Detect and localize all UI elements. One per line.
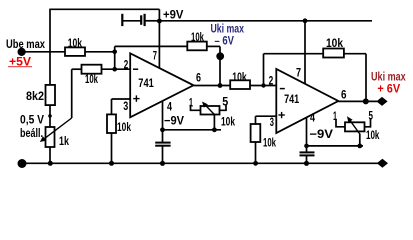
- red underline: [8, 66, 32, 68]
- op-amp U2: [269, 65, 347, 133]
- test point dot -6V: [216, 52, 224, 60]
- svg-text:10k: 10k: [221, 115, 235, 129]
- svg-text:−9V: −9V: [309, 127, 333, 141]
- wire R2 left lead: [72, 68, 82, 70]
- junction dot U1 output: [218, 83, 223, 88]
- junction dot wiper P3: [357, 144, 362, 149]
- junction dot rail R3: [109, 161, 114, 166]
- svg-text:4: 4: [310, 111, 315, 125]
- wire -9V run of U2: [307, 145, 364, 147]
- junction dot node pin2 lower: [112, 67, 117, 72]
- svg-text:6: 6: [341, 87, 347, 101]
- svg-text:741: 741: [284, 92, 299, 106]
- wire top-left horizontal: [50, 8, 159, 10]
- svg-text:– 6V: – 6V: [215, 34, 235, 48]
- svg-text:3: 3: [123, 99, 128, 113]
- junction dot U2 output feedback: [363, 98, 369, 104]
- wire feedback drop to U2 output: [365, 54, 367, 102]
- wire -9V run of U1: [163, 129, 222, 131]
- output terminal diamond top: [376, 97, 387, 106]
- resistor R1 10k: [65, 36, 85, 56]
- wire ground rail: [22, 162, 382, 164]
- svg-text:8k2: 8k2: [26, 89, 44, 103]
- wire feedback drop to output node: [219, 46, 221, 85]
- potentiometer P1 1k: [40, 118, 72, 148]
- pot P2 pin1 lead: [191, 105, 201, 111]
- U1 minus sign: [133, 68, 138, 70]
- capacitor C1 left lead: [122, 20, 141, 22]
- pot P3 pin5 lead: [365, 118, 371, 127]
- output terminal diamond bottom: [377, 159, 388, 168]
- capacitor C1 plates: [122, 14, 144, 26]
- wire feedback right run: [207, 45, 220, 47]
- svg-text:5: 5: [222, 95, 228, 109]
- U2 plus sign: [278, 114, 284, 116]
- junction dot +9V right: [303, 18, 308, 23]
- junction dot rail C3: [304, 161, 309, 166]
- resistor R3 10k: [107, 114, 131, 134]
- svg-text:4: 4: [167, 100, 172, 114]
- svg-text:2: 2: [124, 58, 129, 72]
- wire vertical +9V corner down to pin 7 of U1: [158, 9, 160, 68]
- svg-text:10k: 10k: [263, 136, 276, 150]
- svg-text:7: 7: [153, 49, 157, 63]
- capacitor C3 top lead: [306, 146, 308, 152]
- ground terminal dot: [18, 159, 27, 168]
- junction dot -9V U2: [304, 144, 309, 149]
- resistor R4 10k feedback U1: [187, 30, 207, 50]
- svg-text:5: 5: [369, 109, 374, 123]
- svg-text:3: 3: [270, 115, 274, 129]
- wire pin 3 down to R3: [111, 99, 113, 114]
- resistor R7 10k: [251, 124, 277, 150]
- pot P2 wiper tail: [213, 114, 215, 130]
- svg-text:−9V: −9V: [164, 114, 184, 128]
- wire pot P1 bottom to rail: [49, 147, 51, 163]
- wire pot wiper riser: [71, 69, 73, 118]
- wire R6 right lead: [344, 53, 366, 55]
- capacitor C2 top lead: [162, 130, 164, 142]
- junction dot wiper P2: [212, 127, 217, 132]
- svg-text:10k: 10k: [191, 30, 204, 44]
- wire pin 4 of U1 down: [162, 101, 164, 130]
- capacitor C3 bottom lead: [306, 156, 308, 164]
- junction dot rail R7: [253, 161, 258, 166]
- wire U2 feedback top run: [264, 53, 324, 55]
- svg-text:10k: 10k: [117, 120, 131, 134]
- svg-text:6: 6: [196, 71, 201, 85]
- wire +9V rail: [159, 20, 372, 22]
- wire pin 3 of U2 horizontal: [256, 115, 277, 117]
- wire R2 right lead into pin 2: [102, 68, 131, 70]
- capacitor C1 right lead: [145, 20, 159, 22]
- wire pin 7 of U2: [304, 21, 306, 84]
- svg-text:2: 2: [269, 74, 274, 88]
- wire pin 4 of U2 down: [306, 117, 308, 145]
- pot P3 pin1 lead: [336, 119, 345, 127]
- wire 8k2 to pot P1: [49, 105, 51, 127]
- svg-text:1k: 1k: [59, 134, 69, 148]
- wire R1 to node pin2: [85, 51, 115, 53]
- svg-text:10k: 10k: [85, 72, 98, 86]
- resistor R8k2: [26, 85, 55, 105]
- wire node vertical to pin 2: [114, 52, 116, 69]
- junction dot rail pot P1: [48, 161, 53, 166]
- input terminal dot: [18, 48, 26, 56]
- pot P3 wiper tail: [359, 134, 361, 146]
- capacitor C3 plates: [300, 152, 315, 155]
- wire U2 feedback riser: [263, 54, 265, 86]
- potentiometer P2 10k offset U1: [189, 95, 235, 129]
- wire feedback riser at node: [114, 46, 116, 51]
- svg-text:+9V: +9V: [163, 7, 183, 21]
- junction dot -9V U1: [160, 127, 165, 132]
- U2 minus sign: [280, 88, 285, 90]
- svg-text:741: 741: [138, 76, 154, 90]
- svg-text:1: 1: [189, 96, 193, 110]
- svg-text:10k: 10k: [232, 70, 247, 84]
- svg-text:+ 6V: + 6V: [377, 81, 400, 95]
- junction dot rail C2: [160, 161, 165, 166]
- wire R3 bottom to ground rail: [111, 133, 113, 163]
- svg-text:0,5 V: 0,5 V: [20, 112, 44, 126]
- svg-text:beáll.: beáll.: [20, 126, 43, 140]
- potentiometer P3 10k offset U2: [333, 109, 380, 142]
- wire U2 output: [338, 100, 378, 102]
- junction dot 8k2-pot: [48, 114, 52, 118]
- wire input Ube to R1: [22, 51, 65, 53]
- resistor R2 10k: [82, 65, 102, 86]
- junction dot U2 pin2: [261, 83, 265, 87]
- wire left vertical to 8k2: [49, 9, 51, 86]
- svg-text:1: 1: [333, 109, 337, 123]
- wire feedback left run: [115, 45, 188, 47]
- resistor R6 10k feedback U2: [323, 36, 344, 58]
- wire pin 3 of U2 down to R7: [255, 116, 257, 124]
- svg-text:10k: 10k: [68, 36, 83, 50]
- pot P2 pin5 lead: [220, 105, 227, 111]
- wire pin 3 horizontal: [112, 98, 131, 100]
- capacitor C2 bottom lead: [162, 146, 164, 163]
- svg-text:Ube max: Ube max: [6, 37, 45, 51]
- svg-text:10k: 10k: [326, 36, 343, 50]
- junction dot node pin2 upper: [112, 50, 117, 55]
- capacitor C2 plates: [155, 143, 170, 146]
- junction dot +9V left: [157, 19, 162, 24]
- op-amp U1: [123, 49, 201, 118]
- resistor R5 10k coupling: [230, 70, 250, 89]
- wire R5 to pin 2 of U2: [250, 85, 276, 87]
- wire R7 bottom to rail: [255, 142, 257, 163]
- svg-text:10k: 10k: [366, 128, 380, 142]
- svg-text:7: 7: [296, 65, 301, 79]
- wire U1 output: [194, 85, 231, 87]
- U1 plus sign: [133, 98, 139, 100]
